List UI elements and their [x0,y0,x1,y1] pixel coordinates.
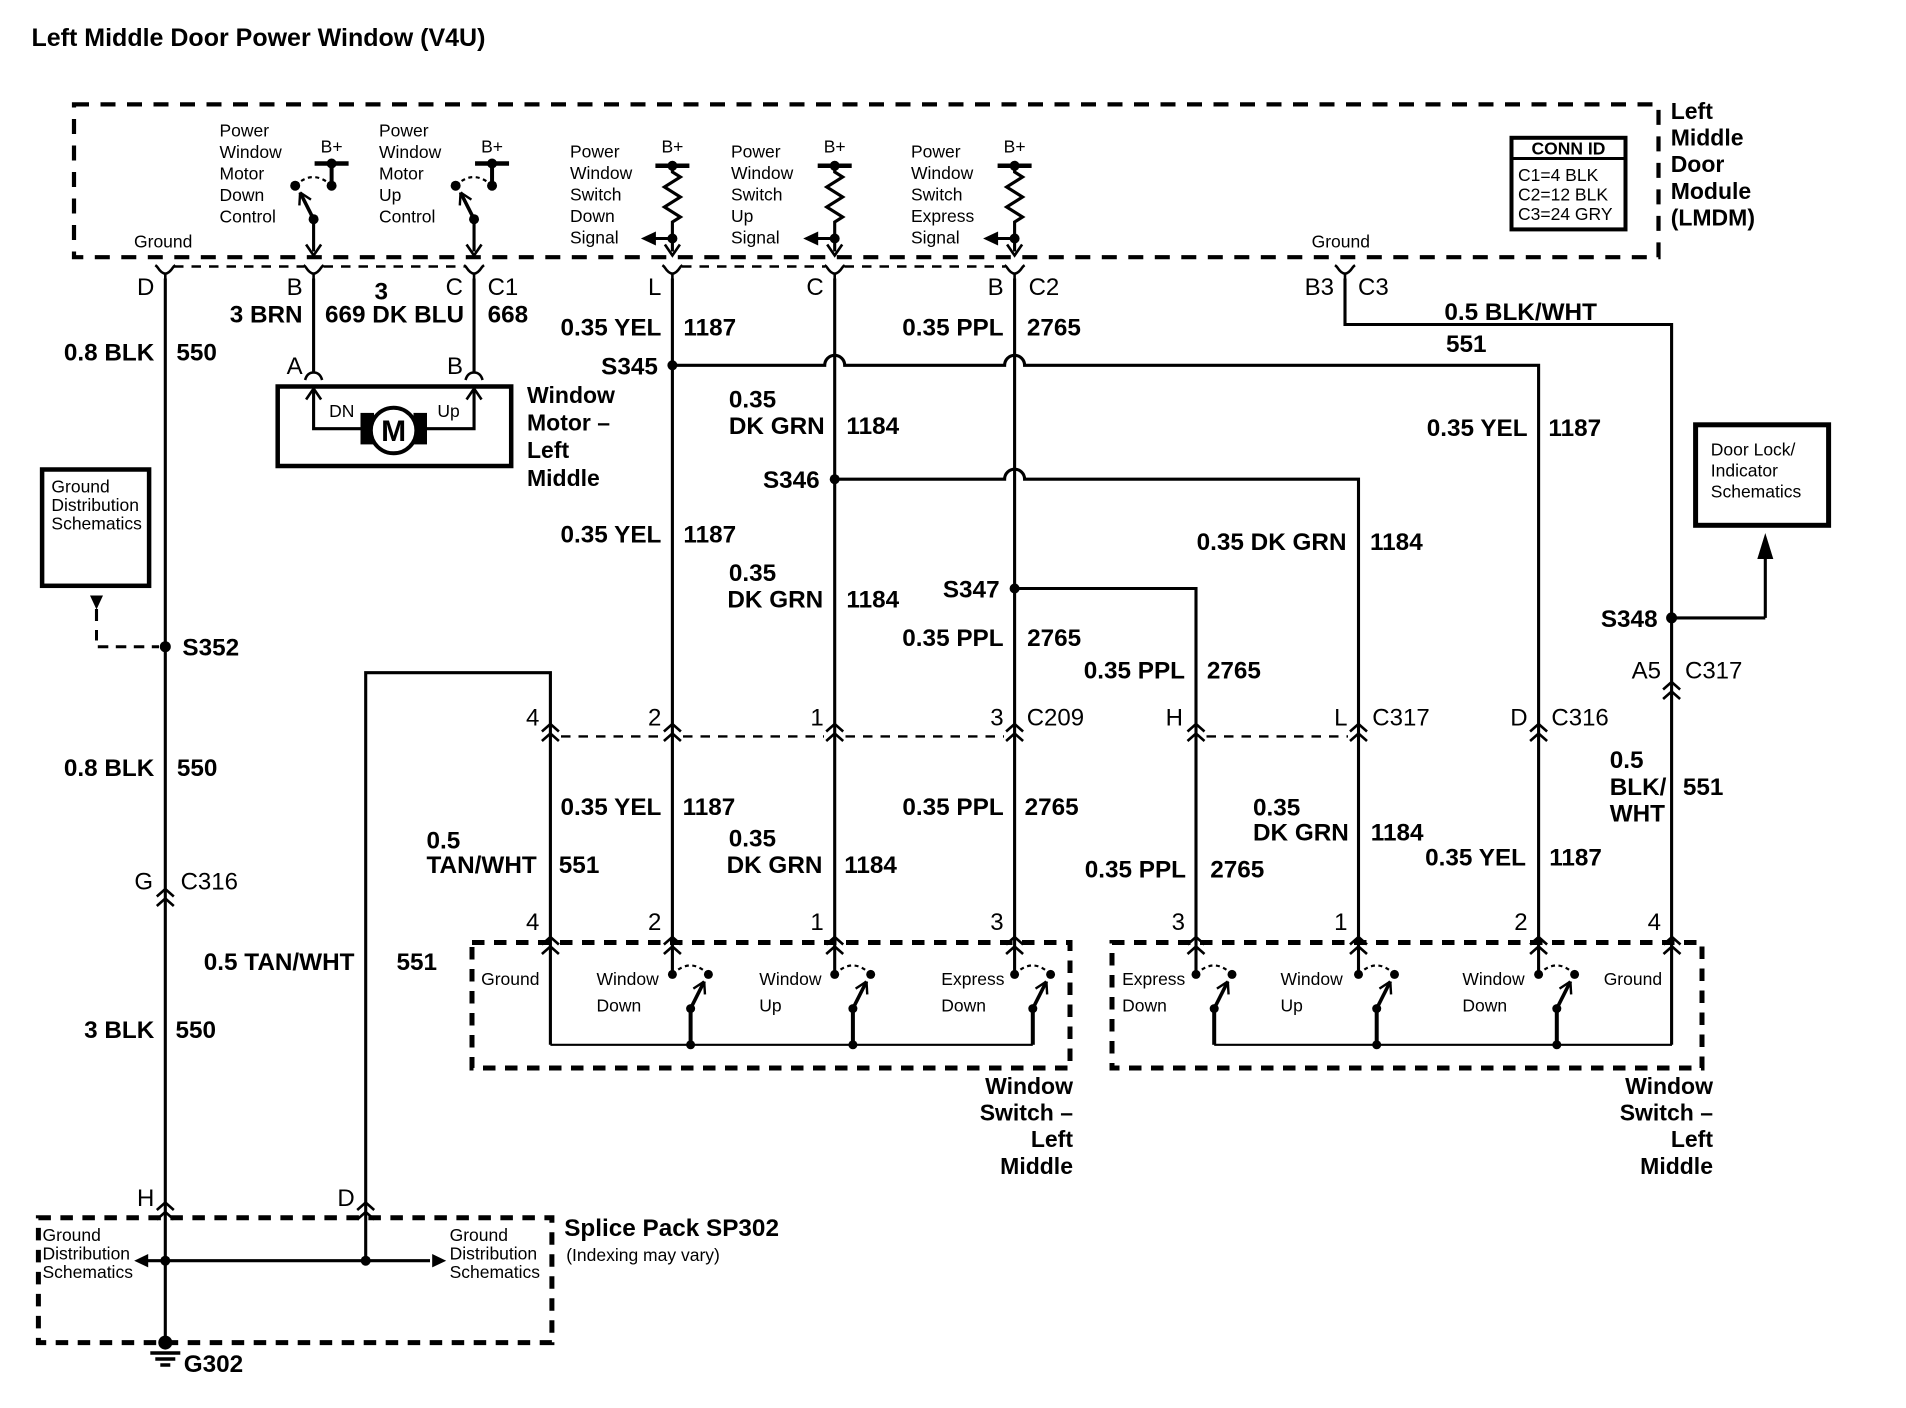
svg-text:Express: Express [911,206,974,226]
window switch box left (dashed) [472,943,1070,1069]
svg-text:2765: 2765 [1210,857,1264,884]
connector C209 dashed line [561,735,662,737]
svg-text:Motor: Motor [379,164,424,184]
svg-text:C317: C317 [1372,705,1429,732]
svg-text:3: 3 [990,909,1003,936]
motor pin A cup [305,373,322,381]
svg-text:0.35 PPL: 0.35 PPL [902,314,1003,341]
svg-text:Ground: Ground [134,232,192,252]
svg-text:Window: Window [1281,969,1344,989]
splice S348 and arrow to Door Lock/Indicator Schematics [1666,612,1677,623]
svg-text:1187: 1187 [683,314,736,341]
right box ground rail [1214,1044,1672,1046]
svg-text:H: H [137,1185,154,1212]
svg-text:0.5 TAN/WHT: 0.5 TAN/WHT [204,949,355,976]
svg-text:A: A [287,353,303,380]
wire: ground B3 C3 0.5 BLK/WHT over to right then down to switch pin 4 [1345,279,1672,1045]
svg-text:0.35 YEL: 0.35 YEL [1427,415,1528,442]
connector C317 L pin [1350,724,1367,732]
svg-text:0.5 BLK/WHT: 0.5 BLK/WHT [1444,299,1597,326]
svg-text:D: D [337,1185,354,1212]
svg-text:3: 3 [1172,909,1185,936]
svg-text:1: 1 [810,909,823,936]
svg-text:Left: Left [527,437,570,463]
svg-text:Express: Express [941,969,1004,989]
ground G302 [158,1336,172,1350]
connector C317 H pin [1188,724,1205,732]
svg-text:2: 2 [648,705,661,732]
svg-text:0.35 YEL: 0.35 YEL [561,314,662,341]
svg-text:B+: B+ [661,137,683,157]
connector C1/C2 dashed boundary line [174,265,304,267]
svg-text:0.8 BLK: 0.8 BLK [64,755,155,782]
splice S352 dot [160,641,171,652]
wire: 0.35 YEL 1187 from pin L down to switch pin 2 [671,279,674,975]
svg-text:550: 550 [177,755,218,782]
svg-text:C3: C3 [1358,274,1389,301]
svg-text:550: 550 [176,1017,217,1044]
svg-text:Up: Up [1281,996,1303,1016]
svg-text:B: B [447,353,463,380]
svg-text:1: 1 [810,705,823,732]
svg-text:Up: Up [379,185,401,205]
arrow from Ground Distribution box down [90,596,103,610]
svg-text:Down: Down [220,185,265,205]
motor pin B terminal arrow [467,389,482,400]
svg-text:M: M [381,415,406,448]
svg-text:551: 551 [1446,331,1487,358]
svg-text:0.8 BLK: 0.8 BLK [64,340,155,367]
left box ground rail [550,1044,1032,1046]
svg-text:Signal: Signal [911,228,960,248]
svg-text:Power: Power [911,142,961,162]
svg-text:Control: Control [220,207,276,227]
svg-text:Ground: Ground [51,477,109,497]
svg-text:BLK/: BLK/ [1610,774,1667,801]
svg-text:Down: Down [941,996,986,1016]
connector pin B (C1) cup [304,265,324,279]
switch S-B: Power Window Motor Up Control contacts (B+) [451,137,509,256]
svg-text:L: L [1334,705,1347,732]
module box LMDM (dashed) [74,104,1659,257]
svg-text:3 BRN: 3 BRN [230,301,303,328]
svg-text:Window: Window [597,969,660,989]
inline connector G / C316 on ground wire [157,889,174,897]
svg-text:Motor: Motor [220,164,265,184]
svg-text:0.35 YEL: 0.35 YEL [561,522,662,549]
svg-text:Middle: Middle [1640,1153,1713,1179]
splice S346 and branch wire to L C317 [830,474,840,484]
svg-text:1187: 1187 [683,794,736,821]
svg-text:0.35 YEL: 0.35 YEL [561,794,662,821]
svg-text:Signal: Signal [570,228,619,248]
svg-text:4: 4 [526,909,539,936]
svg-text:Window: Window [1462,969,1525,989]
svg-text:C316: C316 [1551,705,1608,732]
svg-text:Switch: Switch [570,185,622,205]
connector pin B3 (C3) cup [1335,265,1355,279]
svg-text:668: 668 [488,301,529,328]
svg-text:Motor –: Motor – [527,410,610,436]
svg-text:1184: 1184 [1370,529,1423,556]
svg-text:1184: 1184 [846,587,899,614]
svg-text:1: 1 [1334,909,1347,936]
svg-text:0.35 PPL: 0.35 PPL [1084,657,1185,684]
svg-text:C1: C1 [488,274,519,301]
wire: 0.35 DK GRN 1184 from pin C down to switch pin 1 [833,279,836,975]
inline connector chevrons H at SP302 [157,1203,174,1211]
connector pin C (C1) cup [464,265,484,279]
svg-text:Ground: Ground [1604,969,1662,989]
svg-text:C1=4 BLK: C1=4 BLK [1518,165,1599,185]
svg-text:S348: S348 [1601,606,1658,633]
svg-text:669 DK BLU: 669 DK BLU [325,301,464,328]
svg-text:Schematics: Schematics [51,514,142,534]
wire: 0.5 TAN/WHT 551 from SP302 D up and over to switch pin 4 ground [366,673,551,1261]
pull-up resistor to B+ at x=672.4 [641,137,690,256]
svg-text:S352: S352 [182,635,239,662]
wire: 3 BRN 669 from pin B to window motor DN [312,279,315,372]
svg-text:Door: Door [1671,151,1725,177]
svg-text:C3=24 GRY: C3=24 GRY [1518,204,1613,224]
svg-text:0.35: 0.35 [729,560,776,587]
svg-text:C2=12 BLK: C2=12 BLK [1518,185,1608,205]
svg-text:551: 551 [397,949,438,976]
svg-text:C: C [446,274,463,301]
svg-text:Ground: Ground [43,1225,101,1245]
svg-text:Splice Pack SP302: Splice Pack SP302 [564,1215,779,1242]
wire: 0.8 BLK 550 ground from pin D down to SP302/G302 [164,279,167,1343]
svg-text:Left Middle Door Power Window: Left Middle Door Power Window (V4U) [32,24,486,52]
svg-text:0.5: 0.5 [427,828,461,855]
splice S345 and branch wire to D C316 [667,360,677,370]
svg-text:C209: C209 [1027,705,1084,732]
svg-text:1184: 1184 [846,413,899,440]
svg-text:0.35 YEL: 0.35 YEL [1425,845,1526,872]
svg-text:DK GRN: DK GRN [729,413,825,440]
svg-text:B: B [287,274,303,301]
svg-text:Power: Power [570,142,620,162]
svg-text:0.35 PPL: 0.35 PPL [902,794,1003,821]
svg-text:Control: Control [379,207,435,227]
svg-text:Middle: Middle [527,465,600,491]
svg-text:Up: Up [759,996,781,1016]
svg-text:Window: Window [985,1073,1073,1099]
svg-text:Down: Down [597,996,642,1016]
wire: 0.35 PPL 2765 from pin B down to switch pin 3 [1013,279,1016,975]
svg-text:Window: Window [220,142,283,162]
svg-text:G302: G302 [184,1351,243,1378]
svg-text:B+: B+ [481,137,503,157]
svg-text:3: 3 [990,705,1003,732]
svg-text:C317: C317 [1685,657,1742,684]
svg-text:Signal: Signal [731,228,780,248]
svg-text:(Indexing may vary): (Indexing may vary) [566,1245,720,1265]
connector C209 row [542,724,559,732]
svg-text:Ground: Ground [1312,232,1370,252]
svg-text:DK GRN: DK GRN [727,587,823,614]
CONN ID table [1512,138,1626,230]
svg-text:S347: S347 [943,577,1000,604]
pull-up resistor to B+ at x=1014.6 [983,137,1032,256]
svg-text:0.35: 0.35 [729,826,776,853]
svg-text:1187: 1187 [683,522,736,549]
svg-text:Middle: Middle [1671,125,1744,151]
svg-text:Switch: Switch [911,185,963,205]
svg-text:B+: B+ [321,137,343,157]
svg-text:B: B [988,274,1004,301]
switch box pin chevrons (left box) [542,937,559,945]
svg-text:2765: 2765 [1027,625,1081,652]
svg-text:A5: A5 [1632,657,1661,684]
svg-text:2765: 2765 [1027,314,1081,341]
svg-text:CONN ID: CONN ID [1532,139,1606,159]
svg-text:0.35 DK GRN: 0.35 DK GRN [1197,529,1347,556]
svg-text:4: 4 [1648,909,1661,936]
svg-text:550: 550 [176,340,217,367]
window motor box [278,387,512,467]
switch S-A: Power Window Motor Down Control contacts (B+) [290,137,348,256]
svg-text:Schematics: Schematics [1711,482,1802,502]
connector pin B (C2) cup [1005,265,1025,279]
svg-text:DK GRN: DK GRN [1253,820,1349,847]
svg-text:Left: Left [1671,98,1714,124]
svg-text:Schematics: Schematics [450,1262,541,1282]
svg-text:Window: Window [1625,1073,1713,1099]
svg-text:2765: 2765 [1025,794,1079,821]
window switch box right (dashed) [1112,943,1702,1069]
svg-text:Window: Window [911,163,974,183]
svg-text:S345: S345 [601,353,658,380]
connector pin D (C1) cup [155,265,175,279]
connector pin C (C2) cup [825,265,845,279]
svg-text:Window: Window [527,382,615,408]
inline connector chevrons D at SP302 [357,1203,374,1211]
svg-text:1187: 1187 [1549,845,1602,872]
svg-text:2: 2 [648,909,661,936]
svg-text:Window: Window [570,163,633,183]
svg-text:551: 551 [559,852,600,879]
svg-text:Distribution: Distribution [51,495,139,515]
svg-text:H: H [1166,705,1183,732]
splice pack SP302 box (dashed) [38,1218,552,1343]
svg-text:Left: Left [1031,1126,1074,1152]
svg-text:B3: B3 [1305,274,1334,301]
svg-text:0.35: 0.35 [1253,795,1300,822]
svg-text:0.5: 0.5 [1610,747,1644,774]
svg-text:Ground: Ground [450,1225,508,1245]
svg-text:1187: 1187 [1548,415,1601,442]
svg-text:Left: Left [1671,1126,1714,1152]
svg-text:TAN/WHT: TAN/WHT [427,852,537,879]
motor internal wires [314,389,361,429]
svg-text:Power: Power [379,121,429,141]
svg-text:0.35 PPL: 0.35 PPL [902,625,1003,652]
svg-text:4: 4 [526,705,539,732]
svg-text:(LMDM): (LMDM) [1671,204,1755,230]
svg-text:2765: 2765 [1207,657,1261,684]
pull-up resistor to B+ at x=834.7 [803,137,852,256]
connector C316 D pin [1530,724,1547,732]
svg-text:1184: 1184 [844,852,897,879]
dashed link from box to S352 [97,630,160,647]
svg-text:0.35: 0.35 [729,387,776,414]
motor pin A terminal arrow [306,389,321,400]
svg-text:L: L [648,274,661,301]
svg-text:D: D [1510,705,1527,732]
svg-text:Switch: Switch [731,185,783,205]
svg-text:WHT: WHT [1610,801,1665,828]
svg-text:S346: S346 [763,467,820,494]
svg-text:Power: Power [220,121,270,141]
svg-text:Up: Up [731,206,753,226]
svg-text:Module: Module [1671,178,1752,204]
svg-text:Window: Window [379,142,442,162]
svg-text:551: 551 [1683,774,1724,801]
motor pin B cup [466,373,483,381]
svg-text:Indicator: Indicator [1711,461,1778,481]
motor M1: armature circle and brushes [361,408,428,454]
connector pin L (C2) cup [662,265,682,279]
svg-text:D: D [137,274,154,301]
svg-text:Distribution: Distribution [43,1244,131,1264]
svg-text:DK GRN: DK GRN [727,852,823,879]
switch box pin chevrons (right box) [1188,937,1205,945]
inline connector A5 / C317 [1663,682,1680,690]
svg-text:Down: Down [570,206,615,226]
svg-text:Up: Up [437,401,459,421]
SP302 bus rail with arrows [146,1259,430,1262]
svg-text:3 BLK: 3 BLK [84,1017,155,1044]
reference box: Door Lock/Indicator Schematics [1696,425,1829,526]
svg-text:C: C [806,274,823,301]
svg-text:Down: Down [1462,996,1507,1016]
svg-text:1184: 1184 [1371,820,1424,847]
svg-text:Schematics: Schematics [43,1262,134,1282]
svg-text:Down: Down [1122,996,1167,1016]
svg-text:G: G [134,869,153,896]
svg-text:Distribution: Distribution [450,1244,538,1264]
wire: DK BLU 668 from pin C to window motor Up [472,279,475,372]
svg-text:DN: DN [329,401,354,421]
svg-text:B+: B+ [1004,137,1026,157]
svg-text:Express: Express [1122,969,1185,989]
svg-text:Switch –: Switch – [1620,1100,1714,1126]
svg-text:Power: Power [731,142,781,162]
splice S347 and branch wire to H C317 [1010,584,1020,594]
svg-text:Door Lock/: Door Lock/ [1711,440,1796,460]
svg-text:C316: C316 [181,869,238,896]
svg-text:C2: C2 [1029,274,1060,301]
svg-text:Middle: Middle [1000,1153,1073,1179]
svg-text:Ground: Ground [481,969,539,989]
svg-text:B+: B+ [824,137,846,157]
svg-text:2: 2 [1514,909,1527,936]
svg-text:Window: Window [759,969,822,989]
connector C317 dashed line [1207,735,1349,737]
reference box: Ground Distribution Schematics (top left) [42,470,149,586]
svg-text:Switch –: Switch – [980,1100,1074,1126]
svg-text:Window: Window [731,163,794,183]
svg-text:0.35 PPL: 0.35 PPL [1085,857,1186,884]
